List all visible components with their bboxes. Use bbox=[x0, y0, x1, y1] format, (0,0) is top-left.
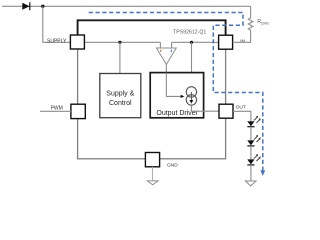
wire PWM stub bbox=[40, 110, 71, 112]
pin OUT bbox=[219, 104, 246, 118]
pin PWM bbox=[51, 104, 86, 118]
svg-text:GND: GND bbox=[167, 163, 178, 169]
node rail to supply-control bbox=[118, 41, 121, 44]
wire top supply rail bbox=[2, 5, 251, 7]
wire LED2-LED3 bbox=[250, 146, 252, 160]
svg-text:(SNS): (SNS) bbox=[261, 22, 269, 26]
wire LED1-LED2 bbox=[250, 127, 252, 141]
svg-text:Supply &: Supply & bbox=[106, 91, 134, 98]
ground symbol (LED string) bbox=[245, 181, 256, 186]
svg-text:SUPPLY: SUPPLY bbox=[47, 39, 67, 45]
wire OUT to LED string bbox=[233, 111, 251, 121]
wire current source to OUT pin bbox=[191, 105, 219, 111]
IC boundary TPS92612-Q1 bbox=[78, 20, 226, 159]
svg-text:IN: IN bbox=[240, 39, 245, 45]
current path (blue dashed) bbox=[89, 13, 263, 171]
pin SUPPLY bbox=[47, 35, 84, 49]
pin IN bbox=[219, 35, 246, 49]
node rail to current source bbox=[190, 41, 193, 44]
wire LED3 to ground bbox=[250, 165, 252, 181]
wire gate drive into current source bbox=[166, 73, 181, 97]
ground symbol (GND pin) bbox=[147, 181, 158, 185]
wire GND stub bbox=[152, 167, 154, 181]
svg-text:OUT: OUT bbox=[236, 104, 246, 110]
svg-text:PWM: PWM bbox=[51, 106, 63, 112]
current path arrowhead bbox=[260, 170, 265, 176]
svg-text:TPS92612-Q1: TPS92612-Q1 bbox=[173, 30, 206, 36]
wire buffer output to Output Driver bbox=[165, 64, 167, 72]
svg-text:Control: Control bbox=[109, 100, 132, 107]
node junction top bbox=[41, 5, 44, 8]
block Output Driver bbox=[150, 73, 203, 118]
wire rail to current source bbox=[191, 42, 193, 87]
pin GND bbox=[145, 153, 178, 169]
wire junction to SUPPLY pin bbox=[43, 6, 71, 42]
LED D2 bbox=[247, 116, 260, 127]
LED D4 bbox=[247, 154, 260, 165]
LED D3 bbox=[247, 135, 260, 146]
block Supply & Control bbox=[100, 74, 141, 118]
current source I1 bbox=[186, 87, 196, 105]
diode D1 bbox=[22, 2, 30, 10]
resistor RSNS bbox=[233, 6, 271, 42]
wire rail to Supply &amp; Control box bbox=[119, 42, 121, 73]
wire internal supply rail bbox=[85, 42, 219, 48]
wire IC top edge (bold supply path) bbox=[78, 20, 226, 35]
op-amp buffer (gate driver) bbox=[156, 48, 176, 64]
